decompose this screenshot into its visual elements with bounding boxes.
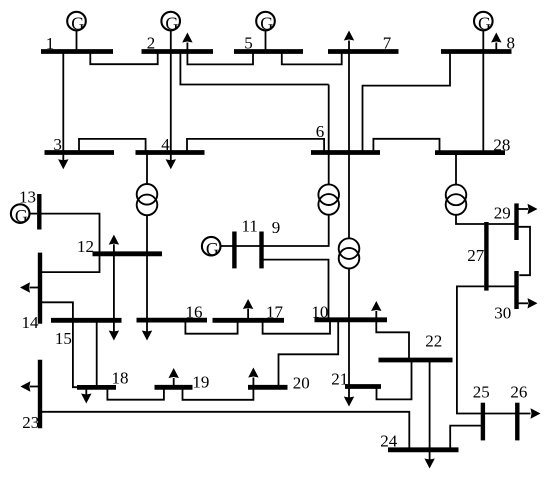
svg-text:19: 19 [192,372,209,391]
svg-text:6: 6 [316,122,325,141]
svg-text:G: G [15,206,28,226]
svg-text:29: 29 [494,204,511,223]
svg-text:G: G [71,14,84,34]
svg-text:1: 1 [46,34,55,53]
svg-text:28: 28 [493,135,510,154]
svg-text:12: 12 [77,237,94,256]
svg-text:G: G [478,14,491,34]
svg-text:17: 17 [266,302,284,321]
svg-text:27: 27 [467,246,485,265]
svg-text:10: 10 [311,302,328,321]
svg-text:G: G [165,14,178,34]
svg-text:G: G [260,14,273,34]
svg-text:15: 15 [55,329,72,348]
svg-text:3: 3 [53,135,62,154]
svg-text:G: G [206,239,219,259]
svg-text:22: 22 [425,331,442,350]
svg-text:21: 21 [331,369,348,388]
svg-text:2: 2 [147,34,156,53]
svg-text:23: 23 [22,413,39,432]
svg-text:24: 24 [380,432,398,451]
svg-text:18: 18 [112,369,129,388]
svg-text:20: 20 [293,373,310,392]
svg-text:16: 16 [186,302,203,321]
svg-text:13: 13 [19,188,36,207]
svg-text:26: 26 [510,383,527,402]
svg-text:7: 7 [383,34,392,53]
svg-text:14: 14 [22,313,40,332]
svg-text:4: 4 [161,135,170,154]
svg-text:5: 5 [244,34,253,53]
svg-text:11: 11 [242,217,258,236]
svg-text:8: 8 [507,34,516,53]
svg-text:9: 9 [272,218,281,237]
svg-text:30: 30 [494,304,511,323]
svg-text:25: 25 [473,383,490,402]
